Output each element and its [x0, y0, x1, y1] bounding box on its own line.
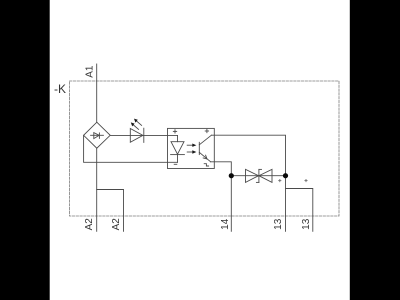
junction node 13 [283, 173, 288, 178]
output squiggle [204, 164, 208, 166]
opto LED anode wire [177, 135, 179, 141]
wire terminal 14 [230, 176, 232, 232]
svg-text:-K: -K [54, 82, 66, 96]
phototransistor Q1 [198, 142, 200, 154]
LED V1 emission arrows [133, 124, 139, 129]
emitter arrow [203, 155, 207, 159]
light arrow lower [187, 151, 193, 153]
plus mark terminal 13 second [305, 180, 307, 182]
svg-text:14: 14 [220, 218, 231, 230]
svg-text:A2: A2 [84, 218, 95, 231]
svg-text:A2: A2 [111, 218, 122, 231]
plus mark terminal 13 first [279, 180, 281, 182]
wire A2 branch [97, 190, 124, 232]
light arrow upper [187, 144, 193, 146]
wire bridge left vertex to bottom rail [84, 135, 178, 162]
wire A2 main vertical [96, 148, 98, 231]
bridge rectifier B1 diamond [84, 122, 111, 148]
wire bridge right vertex to optocoupler input [110, 134, 177, 136]
left black bar [0, 0, 50, 300]
opto LED cathode wire [177, 155, 179, 163]
optocoupler U1 box [168, 128, 215, 168]
wire A1 vertical [96, 64, 98, 122]
TVS suppressor V2 [246, 169, 259, 182]
opto internal LED [171, 142, 184, 155]
wire between output nodes [231, 175, 285, 177]
emitter wire to node 14 [211, 162, 232, 176]
plus mark opto top-left [173, 130, 176, 132]
dashed enclosure -K [70, 81, 340, 216]
wire terminal 13 first [285, 176, 287, 232]
svg-text:13: 13 [301, 218, 312, 230]
bridge diode inside [91, 134, 104, 136]
LED V1 indicator [130, 129, 143, 143]
svg-text:A1: A1 [84, 65, 95, 78]
minus mark opto bottom-left [174, 163, 177, 165]
right black bar [350, 0, 400, 300]
plus mark opto top-right [205, 130, 208, 132]
junction node 14 [229, 173, 234, 178]
collector wire to node 13 [211, 135, 285, 176]
wire terminal 13 second branch [286, 189, 313, 232]
svg-text:13: 13 [273, 218, 284, 230]
